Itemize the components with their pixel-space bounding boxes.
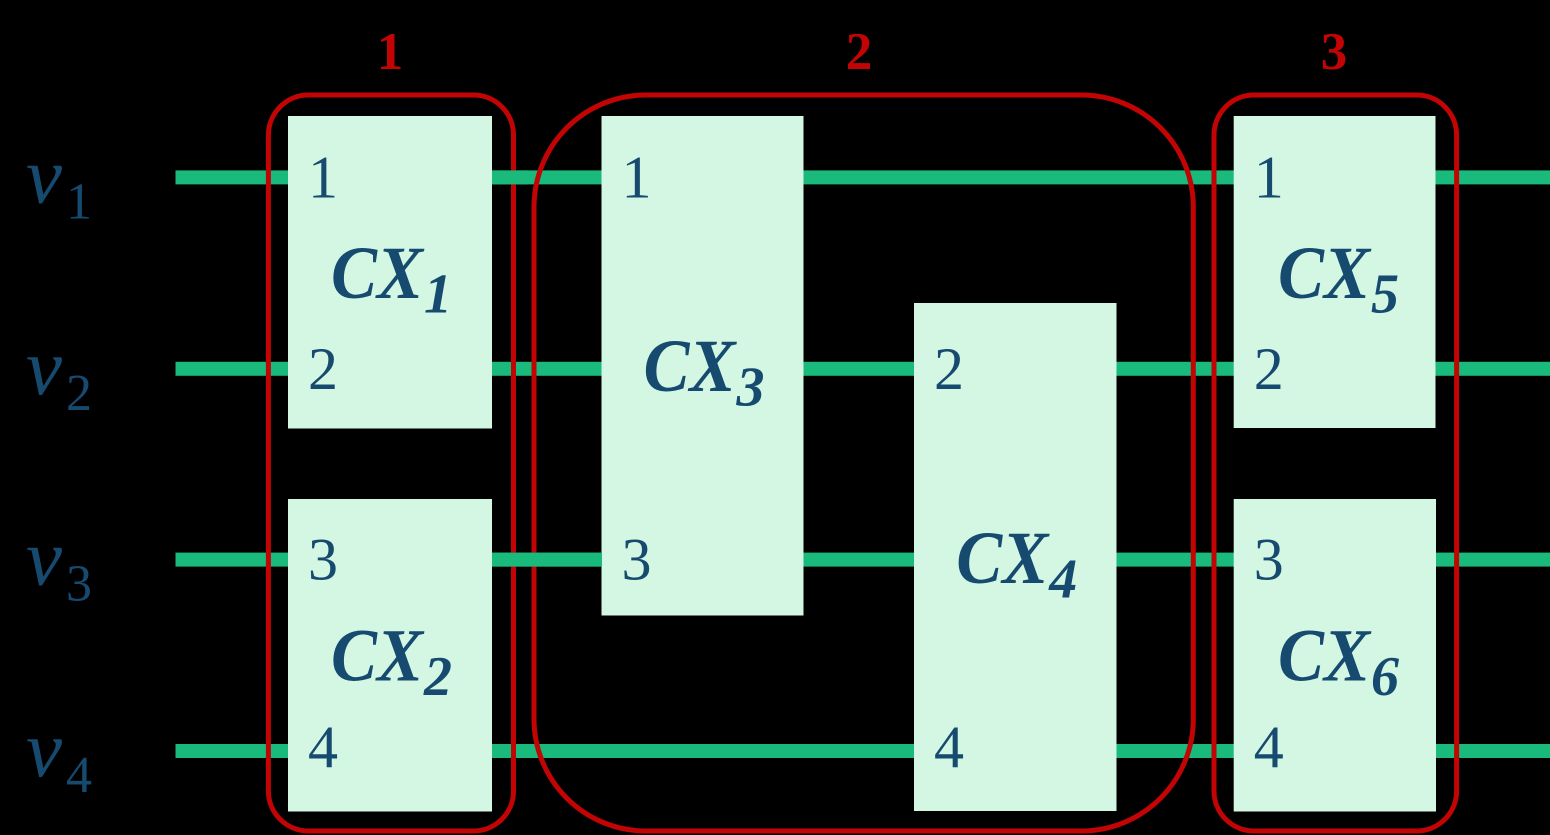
svg-text:3: 3 <box>736 356 765 418</box>
svg-text:1: 1 <box>1254 144 1284 210</box>
svg-text:1: 1 <box>377 23 404 81</box>
svg-text:CX: CX <box>1278 615 1372 698</box>
svg-text:4: 4 <box>1048 549 1077 611</box>
svg-text:1: 1 <box>66 173 92 230</box>
svg-text:2: 2 <box>66 365 92 422</box>
svg-text:CX: CX <box>331 232 425 315</box>
svg-text:3: 3 <box>308 527 338 593</box>
svg-text:2: 2 <box>846 23 873 81</box>
svg-text:4: 4 <box>1254 714 1284 780</box>
svg-text:CX: CX <box>1278 232 1372 315</box>
svg-text:v: v <box>26 704 62 794</box>
svg-text:v: v <box>26 130 62 220</box>
svg-text:3: 3 <box>1321 23 1348 81</box>
svg-text:5: 5 <box>1371 264 1399 326</box>
svg-text:3: 3 <box>622 527 652 593</box>
svg-text:v: v <box>26 322 62 412</box>
svg-text:v: v <box>26 513 62 603</box>
svg-text:2: 2 <box>934 336 964 402</box>
svg-text:2: 2 <box>1254 336 1284 402</box>
svg-text:CX: CX <box>331 615 425 698</box>
svg-text:6: 6 <box>1371 646 1399 708</box>
svg-text:4: 4 <box>934 714 964 780</box>
svg-text:4: 4 <box>308 714 338 780</box>
svg-text:1: 1 <box>622 144 652 210</box>
svg-text:CX: CX <box>644 325 738 408</box>
svg-text:2: 2 <box>308 336 338 402</box>
svg-text:1: 1 <box>424 264 452 326</box>
svg-text:CX: CX <box>956 517 1050 600</box>
svg-text:4: 4 <box>66 747 92 804</box>
svg-text:3: 3 <box>1254 527 1284 593</box>
svg-text:1: 1 <box>308 144 338 210</box>
svg-text:2: 2 <box>423 646 452 708</box>
svg-text:3: 3 <box>66 556 92 613</box>
